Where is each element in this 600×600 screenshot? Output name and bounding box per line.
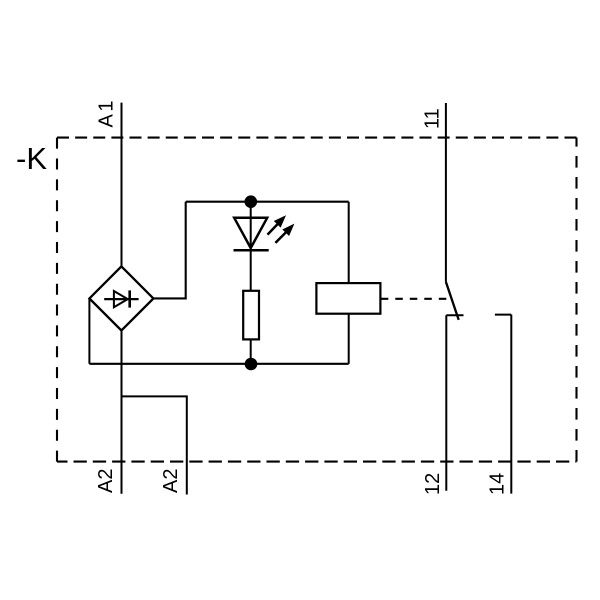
bridge rectifier V1 diamond: [89, 266, 153, 330]
bridge diode triangle: [114, 291, 128, 307]
junction dot top: [245, 195, 258, 208]
wire LED branch vertical: [250, 202, 252, 291]
relay coil K: [316, 283, 380, 314]
svg-text:A1: A1: [96, 98, 118, 127]
wire coil top riser: [348, 202, 350, 283]
bridge diode cathode bar: [128, 290, 131, 307]
LED triangle: [234, 218, 267, 248]
switch lever 11-12: [446, 282, 459, 320]
wire A1: [121, 103, 123, 267]
wire A2 from bridge bottom: [121, 331, 123, 494]
bridge diode line: [104, 298, 138, 300]
svg-text:-K: -K: [16, 141, 47, 176]
svg-text:12: 12: [422, 473, 444, 495]
svg-text:A2: A2: [160, 469, 182, 493]
wire resistor to bottom rail: [250, 339, 252, 364]
junction dot bottom: [245, 358, 258, 371]
wire bottom rail: [89, 363, 348, 365]
wire top rail: [186, 201, 349, 203]
wire bridge right corner to top rail: [153, 202, 186, 299]
resistor R1: [243, 291, 259, 340]
dashed actuation link: [381, 298, 451, 300]
relay boundary dashed box -K: [57, 138, 577, 462]
wire coil bottom riser: [348, 314, 350, 364]
wire 12: [445, 315, 447, 491]
LED arrow 1: [268, 215, 287, 234]
contact 14 tick: [495, 314, 511, 316]
wire 14: [510, 315, 512, 494]
LED cathode bar: [234, 249, 269, 252]
svg-text:14: 14: [486, 473, 508, 495]
LED arrow 2: [275, 224, 294, 243]
wire A2 branch: [122, 396, 187, 494]
svg-text:11: 11: [422, 108, 444, 129]
contact 12 tick: [446, 314, 463, 316]
wire 11: [445, 103, 447, 282]
svg-text:A2: A2: [95, 469, 117, 493]
wire bridge left corner riser: [88, 299, 90, 364]
